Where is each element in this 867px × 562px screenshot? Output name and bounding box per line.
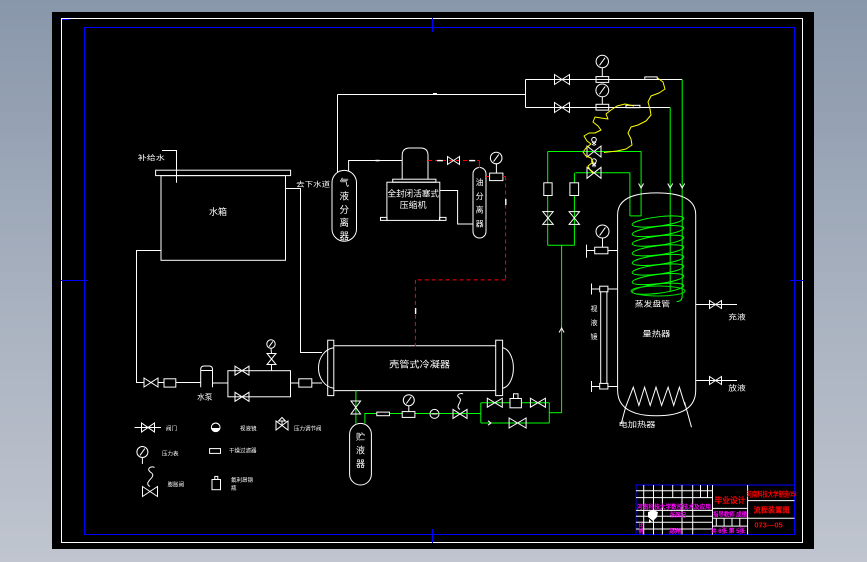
svg-text:例: 例 [639,528,644,535]
svg-text:水箱: 水箱 [209,206,227,217]
svg-text:器: 器 [356,459,365,469]
svg-text:离: 离 [476,205,484,215]
svg-text:视液镜: 视液镜 [240,425,257,433]
svg-text:器: 器 [476,219,484,228]
svg-text:张国记: 张国记 [670,511,686,519]
svg-text:压缩机: 压缩机 [400,199,427,210]
svg-text:水泵: 水泵 [197,392,213,402]
svg-text:流程装置图: 流程装置图 [754,505,790,515]
svg-text:补给水: 补给水 [138,153,165,162]
svg-text:气: 气 [339,177,349,189]
svg-text:毕业设计: 毕业设计 [715,495,746,505]
svg-text:阀门: 阀门 [166,425,177,433]
svg-text:指导教师 成绩: 指导教师 成绩 [713,511,747,519]
svg-text:去下水道: 去下水道 [296,179,330,188]
svg-text:膨胀阀: 膨胀阀 [168,481,185,489]
svg-text:氟利昂钢: 氟利昂钢 [231,476,254,484]
svg-text:河南科技大学数控技术及应用: 河南科技大学数控技术及应用 [637,503,711,511]
svg-text:液: 液 [339,190,349,202]
svg-text:分: 分 [339,205,349,216]
svg-text:量热器: 量热器 [642,329,670,339]
svg-text:分: 分 [476,192,484,201]
svg-text:共 6张 第 5张: 共 6张 第 5张 [711,527,746,535]
svg-text:郑州: 郑州 [669,528,681,536]
svg-text:073—05: 073—05 [754,521,782,530]
svg-text:河南科技大学制造05I: 河南科技大学制造05I [747,490,797,499]
svg-text:器: 器 [339,232,349,243]
svg-text:油: 油 [476,177,484,187]
svg-text:瓶: 瓶 [231,484,237,492]
svg-text:壳管式冷凝器: 壳管式冷凝器 [389,359,450,370]
svg-text:液: 液 [591,318,598,327]
svg-text:贮: 贮 [356,431,365,442]
svg-text:放液: 放液 [728,383,746,393]
svg-text:充液: 充液 [728,312,746,322]
svg-text:视: 视 [591,304,598,313]
svg-text:电加热器: 电加热器 [619,419,657,429]
svg-text:压力调节阀: 压力调节阀 [294,425,322,433]
svg-text:离: 离 [339,217,349,229]
svg-text:干燥过滤器: 干燥过滤器 [229,447,257,455]
svg-text:液: 液 [356,445,365,456]
svg-text:蒸发盘管: 蒸发盘管 [635,299,671,309]
svg-text:比: 比 [639,522,644,529]
svg-text:镜: 镜 [591,332,598,341]
svg-text:全封闭活塞式: 全封闭活塞式 [388,188,440,199]
svg-text:压力表: 压力表 [162,450,179,458]
